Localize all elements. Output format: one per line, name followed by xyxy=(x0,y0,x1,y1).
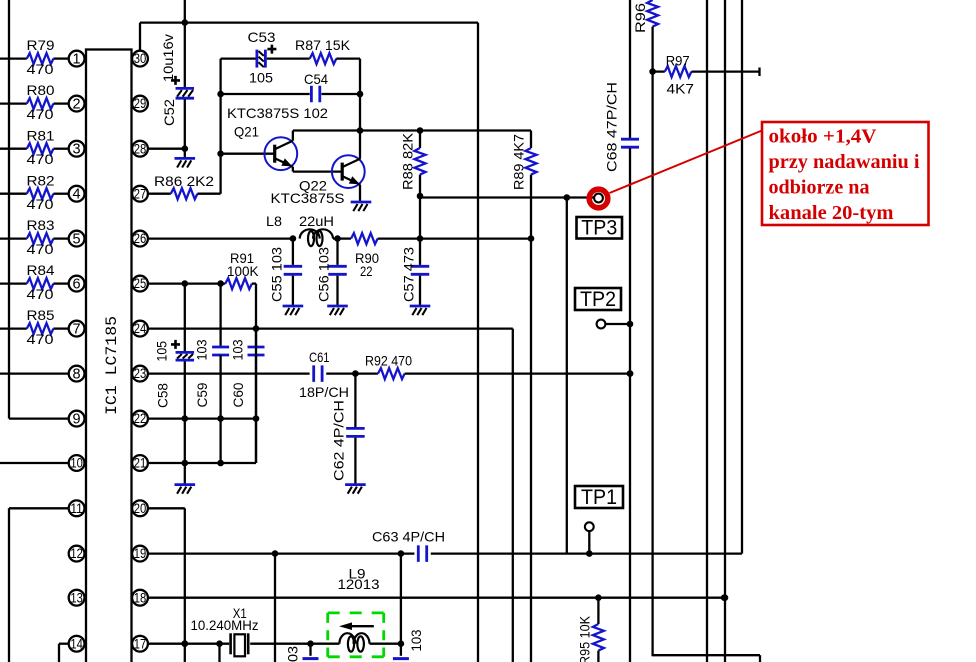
svg-text:22: 22 xyxy=(360,263,373,279)
svg-text:2: 2 xyxy=(73,97,81,113)
svg-text:103: 103 xyxy=(230,339,246,360)
svg-text:C62 4P/CH: C62 4P/CH xyxy=(331,400,347,481)
svg-text:R92 470: R92 470 xyxy=(365,353,412,369)
svg-text:C61: C61 xyxy=(309,349,330,365)
svg-text:C59: C59 xyxy=(194,382,210,407)
svg-text:25: 25 xyxy=(134,276,147,291)
svg-text:Q21: Q21 xyxy=(234,124,259,140)
svg-text:przy nadawaniu i: przy nadawaniu i xyxy=(769,151,920,173)
svg-text:4K7: 4K7 xyxy=(667,81,695,97)
svg-text:19: 19 xyxy=(134,546,147,561)
svg-text:KTC3875S 102: KTC3875S 102 xyxy=(227,105,328,121)
svg-text:103: 103 xyxy=(285,646,301,662)
svg-text:około +1,4V: około +1,4V xyxy=(769,126,878,148)
svg-text:C68 47P/CH: C68 47P/CH xyxy=(604,82,620,172)
svg-text:100K: 100K xyxy=(227,263,259,279)
svg-text:C53: C53 xyxy=(248,29,276,45)
svg-text:12013: 12013 xyxy=(338,576,380,592)
svg-text:R79: R79 xyxy=(27,37,55,53)
svg-text:8: 8 xyxy=(73,367,81,383)
svg-text:R81: R81 xyxy=(27,127,55,143)
svg-text:L8: L8 xyxy=(266,213,282,229)
svg-text:5: 5 xyxy=(73,232,81,248)
svg-text:27: 27 xyxy=(134,186,147,201)
svg-text:105: 105 xyxy=(249,70,273,86)
svg-text:TP2: TP2 xyxy=(580,288,616,311)
svg-text:10.240MHz: 10.240MHz xyxy=(191,617,259,633)
svg-text:26: 26 xyxy=(134,231,147,246)
svg-text:R86 2K2: R86 2K2 xyxy=(154,173,214,189)
svg-text:1: 1 xyxy=(73,52,81,68)
svg-text:20: 20 xyxy=(134,501,147,516)
svg-text:R87 15K: R87 15K xyxy=(295,37,351,53)
svg-text:IC1 LC7185: IC1 LC7185 xyxy=(103,316,121,415)
svg-text:22: 22 xyxy=(134,411,147,426)
svg-text:11: 11 xyxy=(70,501,83,516)
svg-text:29: 29 xyxy=(134,96,147,111)
svg-text:6: 6 xyxy=(73,277,81,293)
svg-text:103: 103 xyxy=(408,629,424,651)
svg-text:odbiorze na: odbiorze na xyxy=(769,177,870,199)
svg-text:12: 12 xyxy=(70,546,83,561)
svg-text:22uH: 22uH xyxy=(299,213,334,229)
svg-text:14: 14 xyxy=(70,636,83,651)
svg-text:KTC3875S: KTC3875S xyxy=(271,190,345,206)
svg-text:470: 470 xyxy=(27,151,54,167)
svg-text:C57 473: C57 473 xyxy=(401,247,417,302)
svg-text:R95 10K: R95 10K xyxy=(577,615,593,662)
svg-text:TP1: TP1 xyxy=(581,486,617,509)
svg-text:R85: R85 xyxy=(27,307,55,323)
svg-text:9: 9 xyxy=(73,412,81,428)
svg-text:R88 82K: R88 82K xyxy=(400,132,416,190)
svg-text:17: 17 xyxy=(134,636,147,651)
svg-text:R96: R96 xyxy=(632,3,648,33)
svg-text:R97: R97 xyxy=(666,53,690,69)
svg-text:C56 103: C56 103 xyxy=(316,247,332,302)
svg-text:10u16v: 10u16v xyxy=(160,34,176,82)
svg-text:C60: C60 xyxy=(230,382,246,407)
svg-text:103: 103 xyxy=(194,339,210,360)
svg-text:3: 3 xyxy=(73,142,81,158)
svg-text:470: 470 xyxy=(27,61,54,77)
svg-text:R84: R84 xyxy=(27,262,55,278)
svg-text:C58: C58 xyxy=(155,383,171,408)
svg-text:13: 13 xyxy=(70,590,83,605)
svg-text:C63 4P/CH: C63 4P/CH xyxy=(372,529,445,545)
svg-text:R89 4K7: R89 4K7 xyxy=(511,134,527,190)
svg-text:R80: R80 xyxy=(27,82,55,98)
svg-text:10: 10 xyxy=(70,456,83,471)
svg-text:kanale 20-tym: kanale 20-tym xyxy=(769,202,894,224)
svg-text:18: 18 xyxy=(134,590,147,605)
svg-text:105: 105 xyxy=(154,341,170,362)
svg-text:23: 23 xyxy=(134,366,147,381)
svg-text:R83: R83 xyxy=(27,217,55,233)
svg-text:R82: R82 xyxy=(27,172,55,188)
svg-text:24: 24 xyxy=(134,321,147,336)
svg-text:4: 4 xyxy=(73,187,81,203)
svg-text:21: 21 xyxy=(134,456,147,471)
svg-text:470: 470 xyxy=(27,241,54,257)
svg-text:7: 7 xyxy=(73,322,81,338)
svg-text:470: 470 xyxy=(27,286,54,302)
svg-text:18P/CH: 18P/CH xyxy=(299,384,349,400)
svg-text:28: 28 xyxy=(134,141,147,156)
svg-text:TP3: TP3 xyxy=(581,216,617,239)
svg-text:470: 470 xyxy=(27,106,54,122)
svg-text:470: 470 xyxy=(27,196,54,212)
svg-text:C54: C54 xyxy=(304,71,328,87)
svg-text:470: 470 xyxy=(27,331,54,347)
svg-text:C55 103: C55 103 xyxy=(269,247,285,302)
svg-text:C52: C52 xyxy=(161,99,177,126)
svg-text:30: 30 xyxy=(134,51,147,66)
